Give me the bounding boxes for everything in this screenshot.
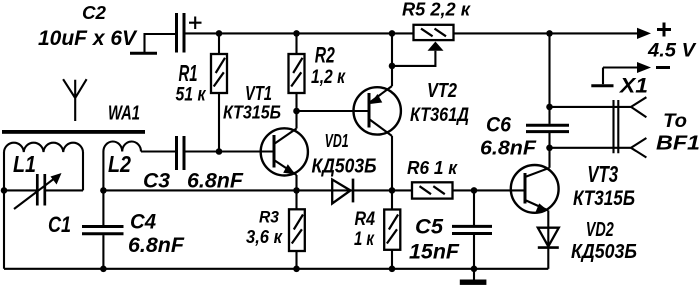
label R2 [315,43,336,68]
diode VD1 [297,179,413,204]
label VT1 type KT315B [223,102,281,123]
node dot R5 wiper [389,63,396,70]
wire VT2 base [297,110,370,112]
node dot C4 bottom [100,266,107,273]
label C2 [82,3,106,23]
label R6 value [407,158,458,178]
diode VD2 [538,228,559,269]
node dot C6 bottom / jack bottom / VT3 collector [546,145,553,152]
resistor R2 [289,33,305,111]
svg-text:VT2: VT2 [427,79,457,102]
capacitor C2 [130,13,202,53]
node dot R4 bottom [389,266,396,273]
svg-text:6.8nF: 6.8nF [480,138,537,160]
supply - arrow and connector X1 [591,62,670,86]
capacitor C5 [452,190,492,268]
node dot R3 bottom [293,266,300,273]
label VT3 [587,161,618,187]
svg-text:C2: C2 [82,3,106,23]
node dot L2-C4-midwire [100,187,107,194]
capacitor C6 [526,107,569,148]
wire bottom rail [4,190,548,268]
capacitor C4 [82,190,124,268]
node dot VD1-VT2-R4-R6 [389,187,396,194]
svg-text:R6 1 к: R6 1 к [407,158,458,178]
svg-text:R2: R2 [315,43,336,68]
label R2 value 1,2k [311,66,346,88]
svg-text:R1: R1 [179,60,198,86]
variable capacitor C1 [4,173,83,209]
wire mid node [103,189,296,191]
svg-text:15nF: 15nF [409,240,460,264]
resistor R4 [384,190,400,268]
node dot rail-VT2emitter [389,30,396,37]
svg-text:КТ361Д: КТ361Д [410,105,469,126]
ground symbol [460,269,487,285]
label L2 [108,151,131,177]
label C5 value 15nF [409,240,460,264]
svg-text:6.8nF: 6.8nF [187,169,244,193]
label VD2 type KD503B [571,240,637,263]
label VT1 [245,82,272,105]
supply + arrow [637,23,671,40]
resistor R1 [211,33,227,151]
label VD2 [586,219,614,241]
svg-text:R5 2,2 к: R5 2,2 к [402,0,472,19]
svg-text:C5: C5 [415,215,444,239]
label To [663,110,687,132]
label VT3 type KT315B [573,186,635,210]
transistor VT3 [511,148,559,228]
ferrite rod core [2,130,145,134]
inductor L1 [4,143,83,191]
node dot VT1 emitter [293,187,300,194]
svg-text:51 к: 51 к [176,84,207,106]
label R3 [259,209,279,227]
svg-text:C1: C1 [48,212,71,237]
label R3 value 3,6k [246,227,283,247]
svg-text:VT3: VT3 [587,161,618,187]
svg-text:КД503Б: КД503Б [571,240,637,263]
wire top supply rail [185,32,638,34]
label C2 value 10uF x 6V [38,27,138,50]
label WA1 [108,103,140,125]
label R5 value [402,0,472,19]
svg-text:3,6 к: 3,6 к [246,227,283,247]
wire jack bottom pin [550,138,647,158]
label X1 [619,74,648,97]
svg-text:WA1: WA1 [108,103,140,125]
svg-text:6.8nF: 6.8nF [128,233,185,257]
node dot R6-C5-VT3base [471,187,478,194]
antenna WA1 symbol [63,79,87,121]
svg-text:To: To [663,110,687,132]
inductor L2 [103,142,141,191]
label C5 [415,215,444,239]
svg-text:VD1: VD1 [325,131,349,151]
svg-text:R3: R3 [259,209,279,227]
svg-text:КТ315Б: КТ315Б [573,186,635,210]
wire jack top pin [550,97,647,117]
node dot C5 bottom [471,266,478,273]
node dot R1-C3-VT1base [216,148,223,155]
svg-text:1 к: 1 к [354,229,375,250]
wire supply branch down [548,33,550,107]
label R1 [179,60,198,86]
label VT2 type KT361D [410,105,469,126]
label VD1 [325,131,349,151]
resistor R6 [412,182,525,198]
node dot C6 top / jack top [546,104,553,111]
label C6 [486,113,512,137]
label VT2 [427,79,457,102]
label R4 [355,209,376,230]
label C1 [48,212,71,237]
svg-text:R4: R4 [355,209,376,230]
label C3 value 6.8nF [187,169,244,193]
svg-text:X1: X1 [619,74,648,97]
jack socket X2 double lines [614,100,619,153]
node dot rail-R2 [293,30,300,37]
svg-text:L2: L2 [108,151,131,177]
capacitor C3 [141,136,274,170]
label C4 [130,210,156,234]
svg-text:C4: C4 [130,210,156,234]
label C3 [143,169,170,193]
label R1 value 51k [176,84,207,106]
svg-text:С6: С6 [486,113,512,137]
label R4 value 1k [354,229,375,250]
node dot VT1collector-R2-VT2base [293,108,300,115]
label 4.5 V [647,40,696,61]
svg-text:VD2: VD2 [586,219,614,241]
label C6 value 6.8nF [480,138,537,160]
resistor R3 [289,190,305,268]
svg-text:1,2 к: 1,2 к [311,66,346,88]
transistor VT2 [354,33,401,190]
label C4 value 6.8nF [128,233,185,257]
svg-text:КТ315Б: КТ315Б [223,102,281,123]
svg-text:КД503Б: КД503Б [312,156,377,178]
node dot rail-right [546,30,553,37]
svg-text:L1: L1 [13,151,36,177]
node dot rail-R1 [216,30,223,37]
transistor VT1 [261,111,308,190]
label VD1 type KD503B [312,156,377,178]
label L1 [13,151,36,177]
svg-text:C3: C3 [143,169,170,193]
node dot L1-C1-ground [1,187,8,194]
svg-text:BF1: BF1 [656,132,700,155]
svg-text:10uF x 6V: 10uF x 6V [38,27,138,50]
svg-text:4.5 V: 4.5 V [647,40,696,61]
label BF1 [656,132,700,155]
variable resistor R5 [392,25,454,66]
